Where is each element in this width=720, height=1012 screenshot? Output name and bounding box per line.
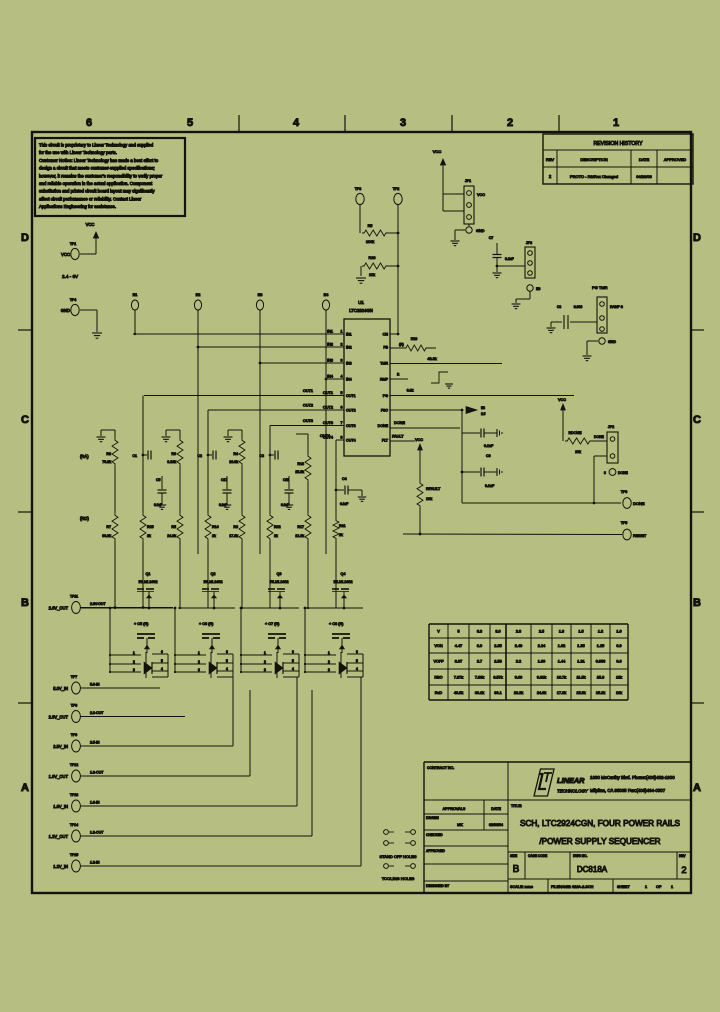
svg-text:2k: 2k <box>339 533 343 537</box>
svg-text:TOOLING HOLES: TOOLING HOLES <box>382 876 415 881</box>
svg-text:0.1uF: 0.1uF <box>281 503 289 507</box>
svg-text:C2: C2 <box>197 454 202 458</box>
svg-text:C1: C1 <box>132 454 137 458</box>
svg-text:1.2-IN: 1.2-IN <box>90 861 100 865</box>
svg-text:TP13: TP13 <box>70 793 78 797</box>
svg-text:90.9k: 90.9k <box>102 534 111 538</box>
svg-text:C: C <box>21 414 29 426</box>
svg-text:6: 6 <box>292 650 294 654</box>
svg-text:5: 5 <box>292 659 294 663</box>
svg-text:R17: R17 <box>297 525 304 529</box>
svg-text:2: 2 <box>328 660 330 664</box>
svg-text:6: 6 <box>161 650 163 654</box>
svg-text:GND: GND <box>476 229 485 233</box>
svg-text:IRLML2402: IRLML2402 <box>333 580 352 584</box>
svg-text:SHEET: SHEET <box>617 885 630 889</box>
svg-text:VCC: VCC <box>433 149 442 154</box>
svg-text:+ C7 (R): + C7 (R) <box>265 622 280 626</box>
svg-text:IRLML2402: IRLML2402 <box>269 580 288 584</box>
svg-text:VCC: VCC <box>558 398 566 402</box>
svg-text:however, it remains the custom: however, it remains the customer's respo… <box>39 173 163 178</box>
svg-text:0.1uF: 0.1uF <box>219 503 227 507</box>
svg-text:This circuit is proprietary to: This circuit is proprietary to Linear Te… <box>39 143 154 148</box>
svg-text:FAULT: FAULT <box>392 435 404 439</box>
svg-text:4.47: 4.47 <box>455 644 462 648</box>
svg-text:15.9k: 15.9k <box>576 691 585 695</box>
svg-text:3: 3 <box>341 359 343 363</box>
svg-text:OUT4: OUT4 <box>320 434 330 438</box>
svg-text:2.85: 2.85 <box>494 644 501 648</box>
svg-text:APPROVED: APPROVED <box>664 157 686 162</box>
svg-text:IRLML2402: IRLML2402 <box>138 580 157 584</box>
svg-text:TP3: TP3 <box>355 187 362 191</box>
svg-text:2.56: 2.56 <box>494 660 501 664</box>
svg-text:2.24: 2.24 <box>538 644 545 648</box>
svg-text:100k: 100k <box>366 240 374 244</box>
svg-text:(R): (R) <box>399 343 404 347</box>
svg-text:D: D <box>693 232 701 244</box>
svg-text:R10: R10 <box>411 337 418 341</box>
svg-text:4: 4 <box>293 117 300 129</box>
svg-text:R18: R18 <box>297 462 304 466</box>
svg-text:9.09: 9.09 <box>515 676 522 680</box>
svg-text:7.68k: 7.68k <box>475 676 484 680</box>
svg-text:4: 4 <box>341 375 343 379</box>
svg-text:TP5: TP5 <box>621 521 628 525</box>
svg-text:CONTRACT NO.: CONTRACT NO. <box>427 766 454 770</box>
svg-text:C4: C4 <box>342 477 347 481</box>
svg-text:3: 3 <box>264 668 266 672</box>
svg-text:2k: 2k <box>274 534 278 538</box>
svg-text:5: 5 <box>341 391 343 395</box>
svg-text:OUT1: OUT1 <box>323 391 333 395</box>
svg-text:3.16k: 3.16k <box>167 460 176 464</box>
svg-text:DONE: DONE <box>394 421 405 425</box>
svg-text:IN1: IN1 <box>346 333 352 337</box>
svg-text:R21: R21 <box>339 524 346 528</box>
svg-text:DONE: DONE <box>618 471 629 475</box>
svg-text:1.5: 1.5 <box>578 630 583 634</box>
svg-text:Q2: Q2 <box>210 572 215 576</box>
svg-text:02/06/04: 02/06/04 <box>489 823 503 827</box>
svg-text:1.21: 1.21 <box>577 660 584 664</box>
svg-text:OUT2: OUT2 <box>303 404 313 408</box>
svg-text:3: 3 <box>400 117 406 129</box>
svg-text:30.1k: 30.1k <box>475 691 484 695</box>
svg-text:FILENAME: 818A-2.SCH: FILENAME: 818A-2.SCH <box>551 885 594 889</box>
svg-text:17.8k: 17.8k <box>229 534 238 538</box>
svg-text:49.9k: 49.9k <box>454 691 463 695</box>
svg-text:11.5k: 11.5k <box>576 676 585 680</box>
svg-text:1630 McCarthy Blvd. Phone:(408: 1630 McCarthy Blvd. Phone:(408)432-1900 <box>590 775 675 780</box>
svg-text:C3: C3 <box>259 454 264 458</box>
svg-text:R20: R20 <box>369 256 376 260</box>
svg-text:OF: OF <box>656 885 662 889</box>
svg-text:0.956: 0.956 <box>596 660 606 664</box>
svg-text:TP15: TP15 <box>70 853 78 857</box>
svg-text:1.2: 1.2 <box>598 630 603 634</box>
svg-text:GND: GND <box>608 340 616 344</box>
svg-text:8.57k: 8.57k <box>493 676 502 680</box>
svg-text:R5: R5 <box>368 224 373 228</box>
svg-text:VCC: VCC <box>61 252 70 257</box>
svg-text:TP9: TP9 <box>71 733 77 737</box>
svg-text:for the use with Linear Techno: for the use with Linear Technology parts… <box>39 150 117 155</box>
svg-text:+ C5 (R): + C5 (R) <box>134 622 149 626</box>
svg-text:/POWER SUPPLY SEQUENCER: /POWER SUPPLY SEQUENCER <box>539 837 660 846</box>
svg-text:2: 2 <box>133 660 135 664</box>
svg-text:3: 3 <box>198 668 200 672</box>
svg-text:4: 4 <box>161 667 163 671</box>
svg-text:2.8V_OUT: 2.8V_OUT <box>49 606 69 611</box>
svg-text:DRAWN: DRAWN <box>426 816 439 820</box>
svg-text:04/26/06: 04/26/06 <box>636 174 652 179</box>
svg-text:0.1uF: 0.1uF <box>340 502 348 506</box>
svg-text:TP6: TP6 <box>621 490 628 494</box>
svg-text:TMR: TMR <box>380 362 388 366</box>
svg-text:TECHNOLOGY: TECHNOLOGY <box>557 789 589 794</box>
svg-text:2.4 - 6V: 2.4 - 6V <box>62 274 79 279</box>
svg-text:1.0: 1.0 <box>616 630 621 634</box>
svg-text:2.8: 2.8 <box>516 630 521 634</box>
svg-text:43.3k: 43.3k <box>427 357 436 361</box>
svg-text:5.0-IN: 5.0-IN <box>90 683 100 687</box>
svg-text:D: D <box>21 232 29 244</box>
svg-text:CAGE CODE: CAGE CODE <box>528 854 547 858</box>
svg-text:4: 4 <box>226 667 228 671</box>
svg-text:23.2k: 23.2k <box>514 691 523 695</box>
svg-text:10k: 10k <box>426 497 432 501</box>
svg-text:VOFF: VOFF <box>433 660 444 664</box>
svg-text:24.9k: 24.9k <box>537 691 546 695</box>
svg-text:LTC2924GN: LTC2924GN <box>349 308 373 313</box>
svg-text:R5: R5 <box>171 525 176 529</box>
svg-text:R22: R22 <box>274 525 281 529</box>
svg-text:0.1uF: 0.1uF <box>485 484 495 488</box>
svg-text:TP14: TP14 <box>70 823 78 827</box>
svg-text:1.62: 1.62 <box>558 644 565 648</box>
svg-text:STAND OFF HOLES: STAND OFF HOLES <box>379 854 416 859</box>
svg-text:3: 3 <box>133 668 135 672</box>
svg-text:2k: 2k <box>147 534 151 538</box>
svg-text:3: 3 <box>328 668 330 672</box>
svg-text:2: 2 <box>341 343 343 347</box>
svg-text:3.3: 3.3 <box>477 630 482 634</box>
svg-text:design a circuit that meets cu: design a circuit that meets customer-sup… <box>39 166 155 171</box>
svg-text:DATE: DATE <box>491 807 501 811</box>
svg-text:REV: REV <box>546 157 555 162</box>
svg-text:OUT2: OUT2 <box>346 409 356 413</box>
svg-text:2k: 2k <box>212 534 216 538</box>
svg-text:TP11: TP11 <box>70 595 78 599</box>
svg-text:E1: E1 <box>133 293 138 297</box>
svg-text:1.8V_OUT: 1.8V_OUT <box>49 774 69 779</box>
svg-text:C7: C7 <box>489 236 494 240</box>
svg-text:VCC: VCC <box>477 193 485 197</box>
svg-text:4: 4 <box>292 667 294 671</box>
svg-text:3.97: 3.97 <box>455 660 462 664</box>
svg-text:10k: 10k <box>616 691 622 695</box>
svg-text:2.49: 2.49 <box>515 644 522 648</box>
svg-text:2.5: 2.5 <box>481 412 486 416</box>
svg-text:2.8-OUT: 2.8-OUT <box>90 711 104 715</box>
svg-text:OUT3: OUT3 <box>323 421 333 425</box>
svg-text:3.0: 3.0 <box>495 630 500 634</box>
svg-text:APPROVED: APPROVED <box>426 849 445 853</box>
svg-text:RAMP S: RAMP S <box>610 305 624 309</box>
svg-text:OUT3: OUT3 <box>346 424 356 428</box>
svg-text:24.3k: 24.3k <box>167 534 176 538</box>
svg-text:1: 1 <box>671 885 673 889</box>
svg-text:C17: C17 <box>221 478 227 482</box>
svg-text:2.8V_OUT: 2.8V_OUT <box>49 715 69 720</box>
svg-text:substitution and printed circu: substitution and printed circuit board l… <box>39 189 155 194</box>
svg-text:SCALE: none: SCALE: none <box>510 885 533 889</box>
svg-text:TITLE:: TITLE: <box>511 804 522 808</box>
svg-text:2: 2 <box>198 660 200 664</box>
svg-text:IN3: IN3 <box>327 359 333 363</box>
svg-text:2.5-IN: 2.5-IN <box>90 741 100 745</box>
svg-text:IN4: IN4 <box>346 378 352 382</box>
svg-text:10.7k: 10.7k <box>557 676 566 680</box>
svg-text:10k: 10k <box>575 450 581 454</box>
svg-text:5: 5 <box>161 659 163 663</box>
svg-text:IN1: IN1 <box>327 330 333 334</box>
svg-text:76.8k: 76.8k <box>102 460 111 464</box>
svg-text:1: 1 <box>328 651 330 655</box>
svg-text:6.8k: 6.8k <box>407 389 414 393</box>
svg-text:A: A <box>693 782 701 794</box>
svg-text:Q4: Q4 <box>340 572 345 576</box>
svg-text:30.1: 30.1 <box>494 691 501 695</box>
svg-text:1.8: 1.8 <box>559 630 564 634</box>
svg-text:DONE: DONE <box>594 435 605 439</box>
svg-text:1.8-OUT: 1.8-OUT <box>90 771 104 775</box>
svg-text:B: B <box>693 597 701 609</box>
svg-text:C9: C9 <box>486 454 491 458</box>
svg-text:5: 5 <box>226 659 228 663</box>
svg-text:9.31k: 9.31k <box>537 676 546 680</box>
svg-text:and reliable operation in the: and reliable operation in the actual app… <box>39 181 153 186</box>
svg-text:5: 5 <box>356 659 358 663</box>
svg-text:+ C8 (R): + C8 (R) <box>329 622 344 626</box>
svg-text:E4: E4 <box>324 293 329 297</box>
svg-text:0.1uF: 0.1uF <box>154 503 162 507</box>
svg-text:2.2: 2.2 <box>516 660 521 664</box>
svg-text:U1: U1 <box>358 300 364 305</box>
svg-text:FB: FB <box>383 346 388 350</box>
svg-text:TP12: TP12 <box>70 763 78 767</box>
svg-text:1: 1 <box>613 117 619 129</box>
svg-text:15.1k: 15.1k <box>596 691 605 695</box>
svg-text:PG TMR: PG TMR <box>592 285 608 290</box>
svg-text:IN2: IN2 <box>327 343 333 347</box>
svg-text:15.8: 15.8 <box>597 676 604 680</box>
svg-text:E2: E2 <box>196 293 201 297</box>
svg-text:OUT4: OUT4 <box>346 439 356 443</box>
svg-text:17.8k: 17.8k <box>557 691 566 695</box>
svg-text:OUT1: OUT1 <box>346 394 356 398</box>
svg-text:2.7: 2.7 <box>477 660 482 664</box>
svg-text:E8: E8 <box>481 406 485 410</box>
svg-text:R8: R8 <box>106 452 111 456</box>
svg-text:RESET: RESET <box>633 533 647 538</box>
svg-text:1: 1 <box>341 330 343 334</box>
svg-text:Q1: Q1 <box>145 572 150 576</box>
svg-text:VON: VON <box>434 644 442 648</box>
svg-text:B: B <box>21 597 29 609</box>
svg-text:(RA): (RA) <box>80 454 89 459</box>
svg-text:DC818A: DC818A <box>577 865 608 874</box>
svg-text:TP8: TP8 <box>71 704 77 708</box>
svg-text:1.8-IN: 1.8-IN <box>90 801 100 805</box>
svg-text:Q3: Q3 <box>276 572 281 576</box>
svg-text:3: 3 <box>604 471 606 475</box>
svg-text:RDONE: RDONE <box>569 431 583 435</box>
svg-text:1: 1 <box>645 885 647 889</box>
svg-text:0.1uF: 0.1uF <box>505 257 514 261</box>
svg-text:1.2V_OUT: 1.2V_OUT <box>49 834 69 839</box>
svg-text:RxD: RxD <box>435 691 443 695</box>
svg-text:E9: E9 <box>536 287 540 291</box>
svg-text:6: 6 <box>341 406 343 410</box>
svg-text:TP2: TP2 <box>393 187 400 191</box>
svg-text:OUT1: OUT1 <box>303 389 313 393</box>
svg-text:Customer Notice: Linear Techno: Customer Notice: Linear Technology has m… <box>39 158 159 163</box>
svg-text:C5: C5 <box>156 478 160 482</box>
svg-text:RBO: RBO <box>434 676 442 680</box>
svg-text:0.9: 0.9 <box>616 644 621 648</box>
svg-text:REVISION HISTORY: REVISION HISTORY <box>593 141 643 147</box>
svg-text:6: 6 <box>86 117 92 129</box>
svg-text:2.5: 2.5 <box>539 630 544 634</box>
svg-text:R15: R15 <box>147 525 154 529</box>
svg-text:R3: R3 <box>233 525 238 529</box>
svg-text:C: C <box>693 414 701 426</box>
svg-text:5: 5 <box>187 117 193 129</box>
svg-text:2: 2 <box>681 865 686 876</box>
svg-text:affect circuit performance or: affect circuit performance or reliabilit… <box>39 196 142 201</box>
svg-text:SIZE: SIZE <box>510 854 517 858</box>
svg-text:5.0V_IN: 5.0V_IN <box>53 686 68 691</box>
svg-text:8: 8 <box>341 436 343 440</box>
svg-text:Applications Engineering for a: Applications Engineering for assistance. <box>39 204 116 209</box>
svg-text:IN4: IN4 <box>327 375 333 379</box>
svg-text:DATE: DATE <box>639 157 650 162</box>
svg-text:B: B <box>513 864 520 875</box>
svg-text:CHECKED: CHECKED <box>426 833 443 837</box>
svg-text:1.2V_IN: 1.2V_IN <box>53 864 68 869</box>
svg-text:(RD): (RD) <box>80 516 89 521</box>
svg-text:JP2: JP2 <box>608 425 614 429</box>
svg-text:1.35: 1.35 <box>577 644 584 648</box>
svg-text:6: 6 <box>356 650 358 654</box>
svg-text:IN2: IN2 <box>346 346 352 350</box>
svg-text:RFAULT: RFAULT <box>426 487 441 491</box>
svg-text:ON: ON <box>383 333 389 337</box>
svg-text:1.25: 1.25 <box>597 644 604 648</box>
svg-text:DWG NO.: DWG NO. <box>573 854 587 858</box>
svg-text:VCC: VCC <box>86 222 95 227</box>
svg-text:REV: REV <box>679 854 686 858</box>
svg-text:APPROVALS: APPROVALS <box>443 807 466 811</box>
svg-text:Milpitas, CA 95035 Fax:(408)4: Milpitas, CA 95035 Fax:(408)434-0507 <box>590 788 666 793</box>
svg-text:V: V <box>437 630 440 634</box>
svg-text:C8: C8 <box>557 305 561 309</box>
svg-text:GND: GND <box>61 308 70 313</box>
svg-text:1: 1 <box>133 651 135 655</box>
svg-text:DESCRIPTION: DESCRIPTION <box>580 157 607 162</box>
svg-text:R14: R14 <box>212 525 219 529</box>
svg-text:TP4: TP4 <box>70 298 77 302</box>
svg-text:DONE: DONE <box>378 424 389 428</box>
svg-text:10.0k: 10.0k <box>229 460 238 464</box>
svg-text:R6: R6 <box>171 452 176 456</box>
svg-text:1.44: 1.44 <box>558 660 565 664</box>
svg-text:1.2-OUT: 1.2-OUT <box>90 831 104 835</box>
svg-text:1.8V_IN: 1.8V_IN <box>53 804 68 809</box>
svg-text:FLT: FLT <box>382 439 389 443</box>
svg-text:JP1: JP1 <box>465 179 471 183</box>
svg-text:R4: R4 <box>233 452 238 456</box>
svg-text:1: 1 <box>264 651 266 655</box>
svg-text:0.1uF: 0.1uF <box>484 444 494 448</box>
svg-text:RMP: RMP <box>380 378 389 382</box>
svg-text:1.99: 1.99 <box>538 660 545 664</box>
svg-text:7: 7 <box>341 421 343 425</box>
svg-text:5: 5 <box>457 630 459 634</box>
svg-text:10k: 10k <box>369 273 375 277</box>
svg-text:PG: PG <box>383 394 388 398</box>
svg-text:2: 2 <box>507 117 513 129</box>
svg-text:2: 2 <box>264 660 266 664</box>
svg-text:OUT3: OUT3 <box>303 419 313 423</box>
svg-text:SCH, LTC2924CGN, FOUR POWER RA: SCH, LTC2924CGN, FOUR POWER RAILS <box>520 819 681 828</box>
svg-text:2.8V-OUT: 2.8V-OUT <box>90 602 106 606</box>
svg-text:PROTO - R2/Rxx Changed: PROTO - R2/Rxx Changed <box>570 174 618 179</box>
svg-text:12k: 12k <box>616 676 622 680</box>
svg-text:+ C6 (R): + C6 (R) <box>199 622 214 626</box>
svg-text:IRLML2402: IRLML2402 <box>203 580 222 584</box>
svg-text:0.6: 0.6 <box>616 660 621 664</box>
svg-text:0.068: 0.068 <box>574 305 583 309</box>
svg-text:LINEAR: LINEAR <box>557 776 585 785</box>
svg-text:2.5V_IN: 2.5V_IN <box>53 744 68 749</box>
svg-text:12.1k: 12.1k <box>295 534 304 538</box>
svg-text:1: 1 <box>198 651 200 655</box>
svg-text:VCC: VCC <box>415 438 423 442</box>
svg-text:4: 4 <box>356 667 358 671</box>
svg-text:C15: C15 <box>283 478 289 482</box>
svg-text:IN3: IN3 <box>346 362 352 366</box>
svg-text:OUT2: OUT2 <box>323 406 333 410</box>
svg-text:DESIGNED BY: DESIGNED BY <box>426 884 450 888</box>
svg-text:FSC: FSC <box>381 409 389 413</box>
svg-text:TP7: TP7 <box>71 675 77 679</box>
svg-text:JP3: JP3 <box>526 241 532 245</box>
svg-text:R7: R7 <box>106 525 111 529</box>
svg-text:6: 6 <box>226 650 228 654</box>
svg-text:15.8k: 15.8k <box>295 470 304 474</box>
svg-text:A: A <box>21 782 29 794</box>
svg-text:TP1: TP1 <box>70 242 77 246</box>
svg-text:DONE: DONE <box>633 501 645 506</box>
svg-text:E3: E3 <box>258 293 263 297</box>
svg-text:3.0: 3.0 <box>477 644 482 648</box>
svg-text:7.87k: 7.87k <box>454 676 463 680</box>
svg-text:MK: MK <box>457 823 463 827</box>
